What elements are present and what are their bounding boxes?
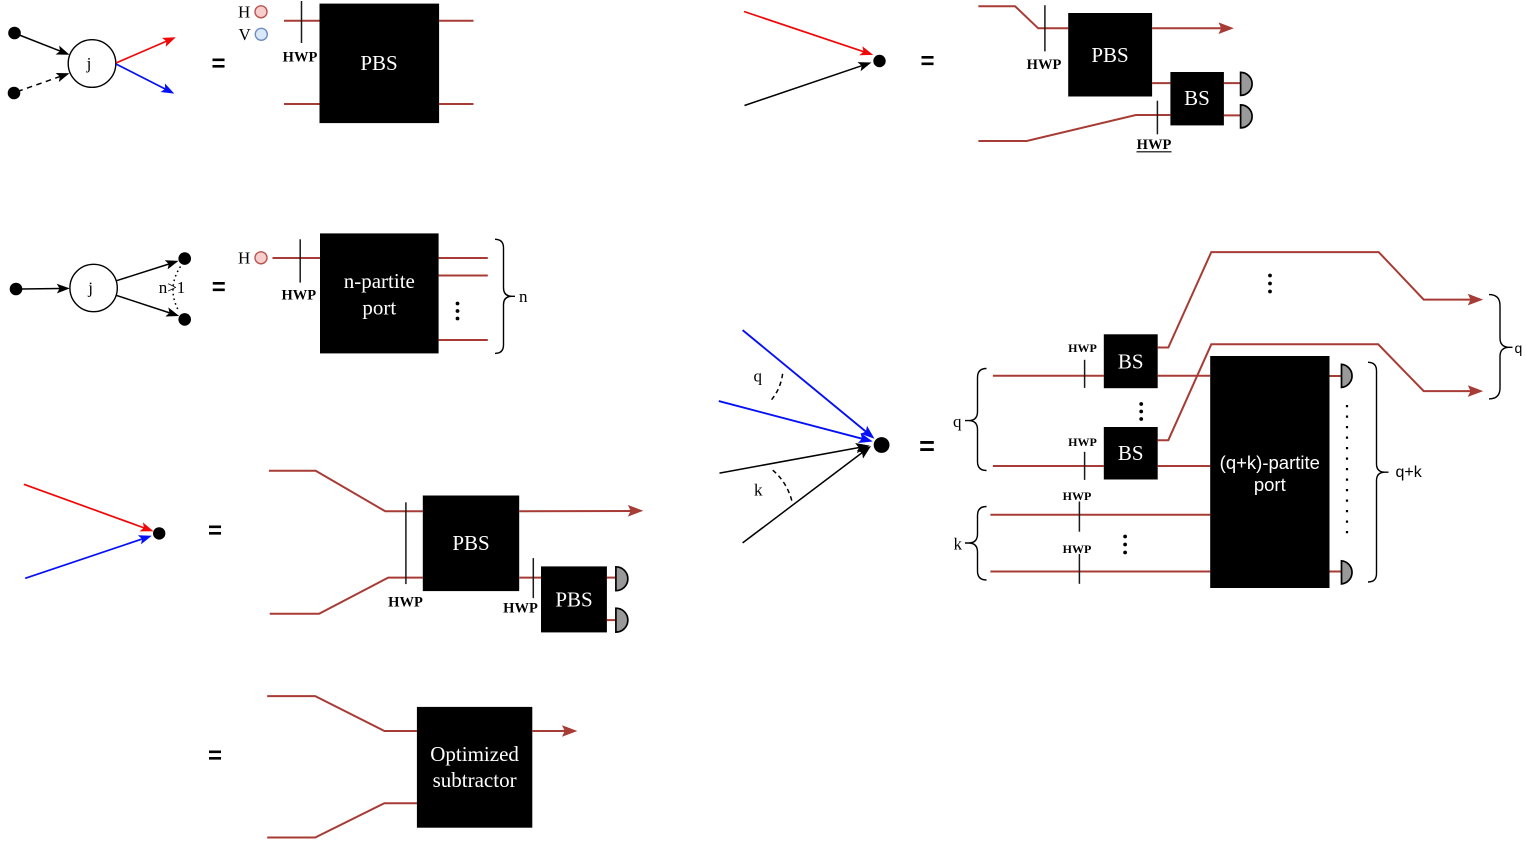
edge A1 to vertex j (solid arrow) [18, 35, 70, 55]
wire BS to detector 2 [1224, 114, 1241, 116]
svg-text:BS: BS [1118, 350, 1144, 374]
svg-text:k: k [754, 481, 763, 500]
svg-text:HWP: HWP [1027, 57, 1062, 73]
svg-text:subtractor: subtractor [433, 768, 517, 792]
wire output Cn [439, 339, 488, 341]
brace q left [965, 369, 987, 471]
svg-text:=: = [212, 274, 226, 301]
PANEL-B [744, 5, 1252, 153]
detector E1 [616, 567, 628, 591]
svg-text:HWP: HWP [283, 50, 318, 66]
wire BS1 to port [1158, 375, 1211, 377]
node dot E [153, 527, 165, 539]
wire output top [439, 20, 473, 22]
detector B1 [1241, 72, 1253, 95]
red input edge B [744, 12, 873, 56]
PANEL-F [208, 696, 577, 837]
PANEL-C [10, 233, 528, 353]
legend V circle [255, 28, 267, 40]
BS box 1 [1104, 334, 1158, 388]
blue input edge E [25, 535, 152, 578]
edge C-in to vertex j (solid arrow) [22, 284, 70, 294]
dashed arc q [770, 374, 783, 402]
PBS box E2 [541, 566, 607, 632]
svg-text:HWP: HWP [388, 595, 423, 611]
HWP plate E2 [532, 558, 534, 598]
brace n [495, 239, 515, 353]
wire input C [273, 257, 321, 259]
route BS2 top output with arrow [1158, 344, 1484, 440]
svg-text:HWP: HWP [1063, 542, 1092, 556]
wire PBS2 to detector 1 [607, 577, 617, 579]
wire input bottom B [978, 115, 1170, 141]
blue output edge [116, 64, 174, 94]
svg-text:=: = [919, 431, 935, 461]
HWP plate E1 [405, 502, 407, 584]
edge A2 to vertex j (dashed arrow) [18, 73, 70, 92]
HWP plate q1 [1084, 360, 1086, 388]
wire input bottom E [270, 578, 423, 614]
wire port to detector bottom [1330, 571, 1343, 573]
blue input edge D2 [719, 401, 873, 443]
vertex circle j [68, 40, 116, 88]
svg-text:PBS: PBS [452, 531, 489, 555]
wire input bottom F [267, 803, 417, 837]
node dot C-down [178, 313, 191, 326]
BS box B [1170, 72, 1224, 125]
dots between BS [1139, 402, 1143, 421]
node dot A2 [8, 87, 21, 100]
wire output bottom [439, 103, 473, 105]
red output edge [116, 37, 176, 63]
detector D-top [1342, 364, 1353, 387]
legend H circle C [255, 252, 267, 264]
svg-text:HWP: HWP [281, 288, 316, 304]
detector D-bottom [1342, 561, 1353, 584]
dashed arc k [773, 470, 793, 502]
svg-text:=: = [920, 48, 934, 75]
svg-text:PBS: PBS [360, 51, 397, 75]
svg-text:HWP: HWP [503, 601, 538, 617]
detector E2 [616, 608, 628, 632]
HWP plate B1 [1044, 5, 1046, 51]
wire PBS2 to detector 2 [607, 619, 617, 621]
brace q+k right [1368, 362, 1389, 582]
svg-text:n: n [519, 287, 528, 306]
HWP plate k1 [1078, 502, 1080, 532]
PBS box A [320, 4, 440, 124]
node dot C-up [178, 252, 191, 265]
dots top route [1268, 274, 1272, 294]
blue input edge D1 [743, 330, 875, 439]
wire input top [284, 20, 320, 22]
wire output F with arrow [532, 725, 577, 737]
svg-text:HWP: HWP [1063, 489, 1092, 503]
dots between k wires [1123, 535, 1127, 555]
wire input top B [978, 6, 1068, 28]
PANEL-A [8, 1, 474, 123]
HWP plate B2 [1156, 101, 1158, 135]
svg-text:=: = [211, 51, 225, 78]
svg-text:j: j [87, 279, 93, 298]
edge j to lower dot [117, 295, 180, 316]
svg-text:H: H [238, 249, 250, 268]
wire BS2 to port [1158, 465, 1211, 467]
wire BS to detector 1 [1224, 82, 1241, 84]
PANEL-E [24, 471, 643, 633]
brace k left [965, 507, 987, 581]
svg-text:HWP: HWP [1068, 341, 1097, 355]
svg-text:=: = [208, 517, 222, 544]
wire output C1 [439, 257, 488, 259]
svg-text:port: port [1254, 474, 1286, 495]
svg-text:q: q [953, 412, 962, 431]
wire PBS to BS [1152, 82, 1170, 84]
svg-text:BS: BS [1184, 86, 1210, 110]
node dot A1 [8, 27, 21, 40]
svg-text:BS: BS [1118, 441, 1144, 465]
wire input top E [269, 471, 423, 512]
wire input top F [267, 696, 417, 731]
node dot C-in [10, 283, 23, 296]
route BS1 top output with arrow [1158, 252, 1484, 347]
PBS box E1 [423, 496, 519, 592]
wire output top B with arrow [1152, 22, 1234, 34]
node dot D [874, 437, 890, 453]
black input edge D3 [720, 443, 870, 473]
vertical dots C [456, 302, 460, 321]
svg-text:HWP: HWP [1068, 435, 1097, 449]
wire k1 in [990, 514, 1210, 516]
vertex circle j C [70, 264, 117, 311]
wire input bottom [284, 103, 320, 105]
svg-text:q: q [1515, 340, 1523, 356]
svg-text:q+k: q+k [1396, 464, 1423, 481]
detector B2 [1241, 105, 1253, 128]
wire q2 in [993, 465, 1104, 467]
svg-text:H: H [238, 3, 250, 22]
PANEL-D [719, 252, 1522, 588]
svg-text:port: port [362, 296, 396, 320]
edge j to upper dot [117, 260, 179, 280]
svg-text:n>1: n>1 [159, 278, 186, 297]
wire port to detector top [1330, 375, 1343, 377]
wire PBS1 to PBS2 [519, 577, 541, 579]
Optimized subtractor box [417, 707, 532, 828]
svg-text:n-partite: n-partite [344, 269, 415, 293]
svg-text:HWP: HWP [1137, 137, 1172, 153]
node dot B [873, 55, 885, 67]
svg-text:k: k [954, 535, 963, 554]
wire q1 in [993, 375, 1104, 377]
wire output top E with arrow [519, 505, 643, 517]
BS box 2 [1104, 427, 1158, 480]
svg-text:=: = [208, 742, 222, 769]
wire output C2 [439, 275, 488, 277]
svg-text:Optimized: Optimized [430, 742, 519, 766]
dotted line between detectors [1346, 405, 1348, 541]
black input edge B [745, 62, 872, 105]
svg-text:PBS: PBS [555, 588, 592, 612]
HWP plate C [299, 239, 301, 282]
(q+k)-partite port box [1210, 356, 1329, 588]
svg-text:(q+k)-partite: (q+k)-partite [1220, 452, 1320, 473]
svg-text:j: j [86, 54, 92, 73]
svg-text:q: q [754, 367, 763, 386]
dotted arc n>1 [173, 267, 181, 311]
svg-text:V: V [239, 25, 252, 44]
black input edge D4 [743, 446, 871, 543]
PBS box B [1068, 13, 1152, 97]
red input edge E [24, 484, 154, 531]
HWP plate A [301, 1, 303, 43]
svg-text:PBS: PBS [1091, 43, 1128, 67]
HWP plate k2 [1078, 554, 1080, 584]
HWP plate q2 [1084, 452, 1086, 480]
HWP underline B2 [1137, 151, 1172, 153]
n-partite port box [320, 233, 439, 353]
wire k2 in [990, 571, 1210, 573]
brace q outputs right [1489, 295, 1513, 399]
legend H circle [255, 6, 267, 18]
